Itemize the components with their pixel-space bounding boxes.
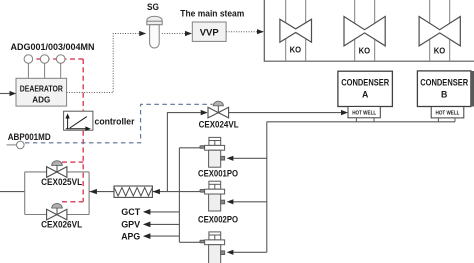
wire sensor tap <box>7 144 17 146</box>
wire discharge pump 3 <box>179 241 200 243</box>
wire suction branch to pump 3 <box>233 251 267 253</box>
pump 3 <box>200 232 225 263</box>
svg-text:SG: SG <box>147 2 159 12</box>
steam generator SG vessel <box>147 16 162 48</box>
wire condensate header from hot wells <box>267 121 455 123</box>
sensor ABP001MD <box>17 141 25 149</box>
wire dotted VVP to turbine hall <box>226 31 257 33</box>
svg-text:KO: KO <box>359 46 371 55</box>
wire dotted SG to VVP <box>162 33 186 35</box>
wire condensate downcomer <box>266 122 268 253</box>
turbine hall boundary box <box>264 0 474 61</box>
wire suction branch to pump CEX002PO <box>233 201 267 203</box>
turbine KO 1 <box>280 19 312 42</box>
condenser A <box>338 71 393 106</box>
svg-text:KO: KO <box>290 45 302 54</box>
svg-text:A: A <box>362 90 369 100</box>
svg-text:ADG001/003/004MN: ADG001/003/004MN <box>11 42 95 52</box>
svg-text:CEX024VL: CEX024VL <box>199 120 239 130</box>
svg-text:CONDENSER: CONDENSER <box>420 77 468 87</box>
wire APG branch <box>150 235 179 237</box>
valve CEX026VL <box>47 203 67 219</box>
wire condensate line through polisher to valves <box>0 191 25 193</box>
svg-text:DEAERATOR: DEAERATOR <box>20 84 63 93</box>
wire turbine 1 steam pipes <box>286 0 306 61</box>
signal line blue dashed ABP001MD to CEX024VL <box>25 104 213 143</box>
svg-text:CEX001PO: CEX001PO <box>198 168 238 178</box>
wire suction branch to pump CEX001PO <box>233 157 267 159</box>
wire hot well B outlet stubs <box>438 118 455 122</box>
valve CEX025VL <box>47 161 67 178</box>
valve circle ADG003 <box>40 55 49 64</box>
svg-text:KO: KO <box>434 46 446 55</box>
wire riser to valve CEX024VL <box>167 113 200 192</box>
signal line red dashed ADG header <box>28 59 83 202</box>
svg-text:ADG: ADG <box>32 95 50 104</box>
box VVP <box>192 22 226 41</box>
wire valve stems to deaerator <box>28 63 60 78</box>
svg-text:HOT WELL: HOT WELL <box>352 111 376 117</box>
svg-text:CEX026VL: CEX026VL <box>41 220 83 230</box>
controller <box>64 111 93 131</box>
wire GCT branch <box>150 211 179 213</box>
svg-text:GPV: GPV <box>121 220 140 230</box>
svg-text:CONDENSER: CONDENSER <box>341 77 389 87</box>
turbine KO 3 <box>419 17 460 46</box>
wire dotted deaerator to SG <box>67 34 140 93</box>
pump CEX001PO <box>200 137 225 167</box>
valve circle ADG004 <box>56 55 65 64</box>
condenser B <box>417 71 471 107</box>
svg-text:CEX025VL: CEX025VL <box>41 177 83 187</box>
turbine KO 2 <box>344 17 385 46</box>
svg-text:The main steam: The main steam <box>180 7 244 18</box>
svg-text:GCT: GCT <box>121 207 141 217</box>
svg-text:B: B <box>441 90 447 100</box>
wire feedwater inlet arrow into deaerator <box>0 93 11 95</box>
hot well A <box>348 107 380 118</box>
svg-text:CEX002PO: CEX002PO <box>198 214 238 224</box>
svg-text:APG: APG <box>121 231 140 241</box>
pump CEX002PO <box>200 181 225 211</box>
heat exchanger polisher <box>114 186 152 197</box>
valve circle ADG001 <box>24 55 33 64</box>
wire pump discharge header <box>178 148 180 243</box>
deaerator ADG <box>16 78 67 106</box>
svg-text:VVP: VVP <box>200 27 220 38</box>
hot well B <box>431 107 464 118</box>
wire bypass loop around valves CEX025VL CEX026VL <box>25 172 89 215</box>
wire hot well A outlet stubs <box>356 118 374 122</box>
svg-text:ABP001MD: ABP001MD <box>8 132 51 142</box>
wire GPV branch <box>150 223 179 225</box>
valve CEX024VL <box>208 101 229 118</box>
wire valve CEX024VL to hot well A <box>229 112 342 114</box>
wire discharge pump 1 <box>179 147 200 149</box>
svg-text:HOT WELL: HOT WELL <box>436 111 460 117</box>
condenser C edge bar (clipped) <box>471 71 474 107</box>
svg-text:controller: controller <box>95 116 135 126</box>
wire turbine 3 steam pipes <box>430 0 450 61</box>
wire turbine 2 steam pipes <box>355 0 375 61</box>
